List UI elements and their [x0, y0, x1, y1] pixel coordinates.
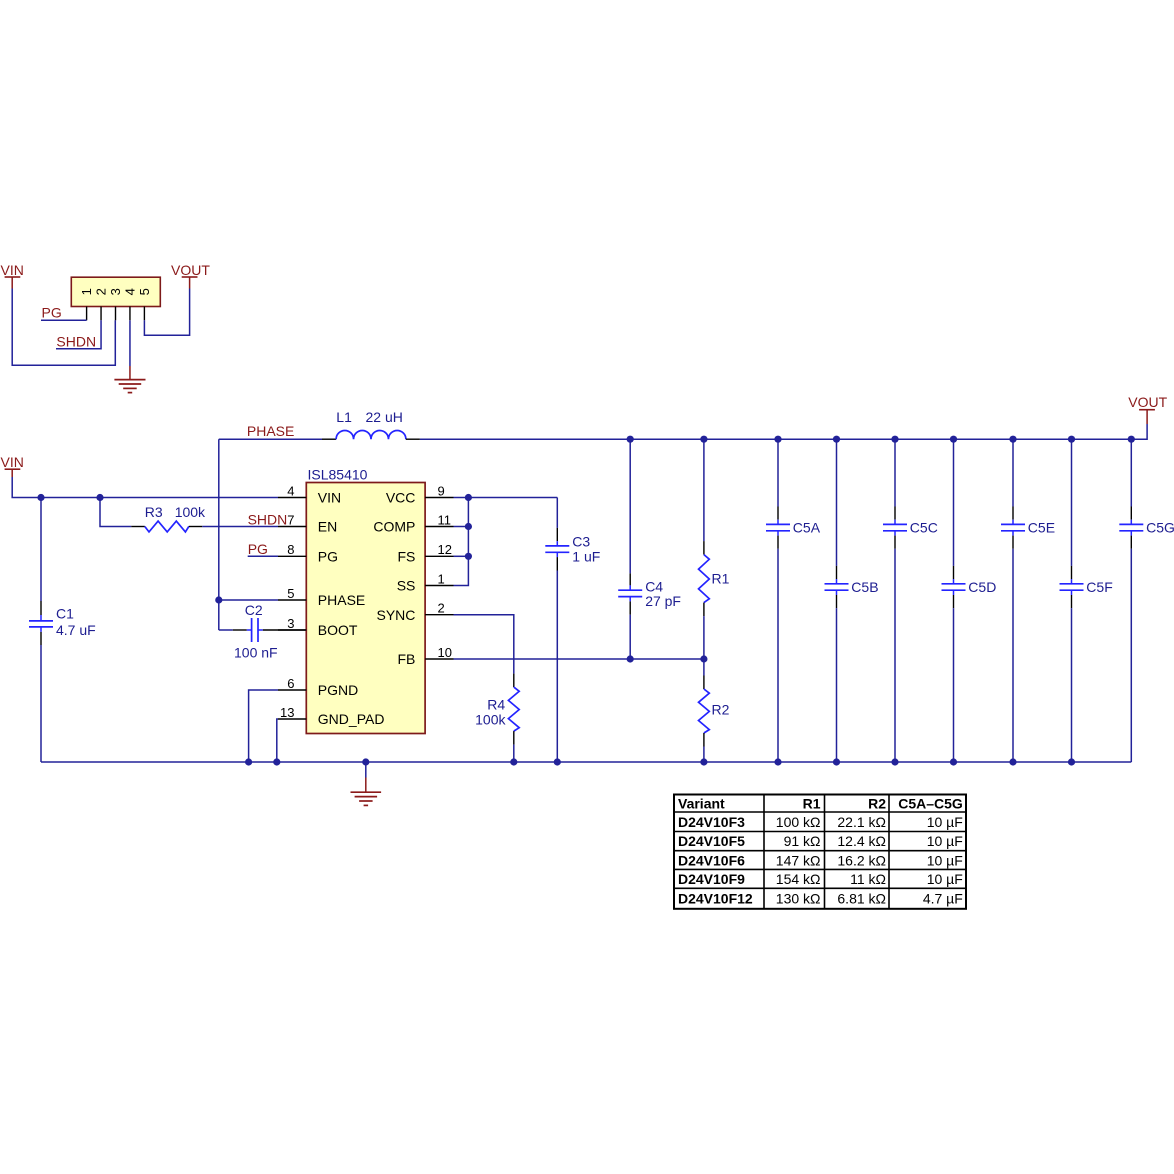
svg-text:SHDN: SHDN [56, 333, 96, 349]
node junction VCC [465, 494, 472, 501]
svg-text:L1: L1 [336, 409, 352, 425]
svg-text:VCC: VCC [386, 490, 416, 506]
table header row [678, 796, 963, 812]
node junction C5A top [774, 436, 781, 443]
IC left pin stubs [278, 498, 306, 720]
wire VIN to connector pin 3 [12, 289, 115, 366]
inductor L1 [322, 430, 420, 439]
node junction C5B bottom [833, 758, 840, 765]
svg-text:91 kΩ: 91 kΩ [784, 833, 821, 849]
svg-text:4.7 uF: 4.7 uF [56, 622, 96, 638]
node junction PGND/rail [245, 758, 252, 765]
R4 value label [475, 696, 506, 727]
svg-text:C5F: C5F [1086, 579, 1112, 595]
node junction C5F top [1068, 436, 1075, 443]
svg-text:27 pF: 27 pF [645, 593, 681, 609]
svg-text:100 kΩ: 100 kΩ [776, 814, 821, 830]
svg-text:C3: C3 [572, 534, 590, 550]
svg-text:1: 1 [438, 571, 445, 586]
svg-text:10: 10 [438, 645, 452, 660]
svg-text:100k: 100k [475, 711, 506, 727]
node junction C5B top [833, 436, 840, 443]
connector pin stubs [87, 307, 145, 321]
svg-text:FS: FS [398, 548, 416, 564]
svg-text:100 nF: 100 nF [234, 644, 278, 660]
IC right pin stubs [425, 498, 453, 660]
capacitor C5C [883, 439, 907, 762]
node PG (main) [248, 541, 278, 557]
svg-text:PG: PG [42, 304, 62, 320]
svg-text:4.7 µF: 4.7 µF [923, 891, 963, 907]
svg-text:16.2 kΩ: 16.2 kΩ [837, 852, 886, 868]
svg-text:C5D: C5D [968, 579, 996, 595]
svg-text:ISL85410: ISL85410 [308, 467, 368, 483]
wire SHDN to pin 2 [56, 320, 101, 348]
table row D24V10F5 [678, 833, 963, 849]
IC U1 ISL85410 body [306, 483, 425, 734]
wire ground rail [41, 761, 1131, 763]
node junction C5F bottom [1068, 758, 1075, 765]
node junction C5D top [950, 436, 957, 443]
svg-text:12: 12 [438, 542, 452, 557]
node junction C5G top [1128, 436, 1135, 443]
node junction C5D bottom [950, 758, 957, 765]
wire PG to pin 1 [41, 319, 87, 321]
node junction C1/VIN [37, 494, 44, 501]
svg-text:PG: PG [248, 541, 268, 557]
wire GND_PAD to ground rail [277, 719, 278, 762]
node junction C5C bottom [891, 758, 898, 765]
ground (main) [351, 792, 382, 805]
svg-text:FB: FB [398, 651, 416, 667]
C2 value label [234, 602, 278, 660]
capacitor C2 [219, 618, 306, 642]
svg-text:R2: R2 [712, 702, 730, 718]
node junction R1/VOUT rail [700, 436, 707, 443]
svg-text:C5B: C5B [851, 579, 878, 595]
svg-text:D24V10F6: D24V10F6 [678, 852, 745, 868]
svg-text:D24V10F9: D24V10F9 [678, 871, 745, 887]
svg-text:R1: R1 [712, 570, 730, 586]
capacitor C4 [618, 439, 642, 659]
resistor R2 [699, 659, 710, 762]
node junction C4/FB [627, 655, 634, 662]
svg-text:PGND: PGND [318, 682, 358, 698]
svg-text:SHDN: SHDN [248, 512, 288, 528]
wire SYNC net [454, 615, 514, 674]
svg-text:2: 2 [438, 601, 445, 616]
variant table frame [674, 795, 966, 909]
svg-text:Variant: Variant [678, 796, 725, 812]
R3 value label [145, 504, 206, 520]
resistor R3 [100, 498, 278, 532]
wire ground stub [365, 762, 367, 792]
svg-text:6.81 kΩ: 6.81 kΩ [837, 891, 886, 907]
node junction FS [465, 553, 472, 560]
svg-text:D24V10F12: D24V10F12 [678, 891, 753, 907]
capacitor C5G [1119, 439, 1143, 762]
connector J1 body [71, 277, 160, 306]
capacitor C5B [825, 439, 849, 762]
svg-text:C5A: C5A [793, 520, 821, 536]
svg-text:5: 5 [287, 586, 294, 601]
wire COMP [454, 526, 469, 528]
svg-text:11: 11 [438, 512, 452, 527]
C4 value label [645, 579, 681, 609]
svg-text:9: 9 [438, 483, 445, 498]
svg-text:GND_PAD: GND_PAD [318, 711, 385, 727]
svg-text:SS: SS [397, 578, 416, 594]
node VIN (main supply label) [1, 454, 24, 477]
wire FS [454, 555, 469, 557]
svg-text:10 µF: 10 µF [927, 852, 963, 868]
node junction COMP [465, 523, 472, 530]
table row D24V10F9 [678, 871, 963, 887]
L1 value label [336, 409, 403, 425]
svg-text:154 kΩ: 154 kΩ [776, 871, 821, 887]
svg-text:R3: R3 [145, 504, 163, 520]
svg-text:C5C: C5C [910, 520, 938, 536]
svg-text:13: 13 [280, 705, 294, 720]
wire VIN net to IC pin 4 [12, 477, 278, 498]
node VOUT (connector supply label) [171, 262, 210, 289]
svg-text:22.1 kΩ: 22.1 kΩ [837, 814, 886, 830]
svg-text:100k: 100k [175, 504, 206, 520]
wire pin 4 to ground [129, 320, 131, 379]
svg-text:PHASE: PHASE [318, 592, 365, 608]
capacitor C5D [942, 439, 966, 762]
wire VOUT rail right of L1 [420, 424, 1147, 439]
svg-text:C5A–C5G: C5A–C5G [898, 796, 963, 812]
svg-text:22 uH: 22 uH [366, 409, 403, 425]
svg-text:4: 4 [122, 288, 137, 295]
svg-text:5: 5 [137, 288, 152, 295]
svg-text:8: 8 [287, 542, 294, 557]
svg-text:3: 3 [287, 616, 294, 631]
svg-text:11 kΩ: 11 kΩ [850, 871, 886, 887]
svg-text:R4: R4 [487, 696, 505, 712]
wire PHASE pin 5 [219, 599, 278, 601]
wire FB net [454, 658, 704, 660]
svg-text:VIN: VIN [318, 490, 341, 506]
wire VCC net [454, 497, 558, 499]
svg-text:2: 2 [94, 288, 109, 295]
svg-text:D24V10F5: D24V10F5 [678, 833, 745, 849]
node junction R3/VIN [96, 494, 103, 501]
node junction ground/rail [362, 758, 369, 765]
svg-text:R2: R2 [868, 796, 886, 812]
svg-text:1: 1 [79, 288, 94, 295]
svg-text:COMP: COMP [373, 519, 415, 535]
capacitor C5F [1060, 439, 1084, 762]
svg-text:10 µF: 10 µF [927, 814, 963, 830]
node junction C3/rail [554, 758, 561, 765]
node VOUT (main supply label) [1128, 394, 1167, 424]
node VIN (connector supply label) [1, 262, 24, 289]
svg-text:1 uF: 1 uF [572, 548, 600, 564]
node junction C4/VOUT rail [627, 436, 634, 443]
C3 value label [572, 534, 600, 565]
svg-text:PHASE: PHASE [247, 423, 294, 439]
resistor R1 [699, 439, 710, 659]
node junction C5E bottom [1009, 758, 1016, 765]
svg-text:12.4 kΩ: 12.4 kΩ [837, 833, 886, 849]
svg-text:VIN: VIN [1, 454, 24, 470]
node junction C5C top [891, 436, 898, 443]
svg-text:VIN: VIN [1, 262, 24, 278]
svg-text:C5G: C5G [1146, 520, 1174, 536]
svg-text:SYNC: SYNC [376, 607, 415, 623]
table row D24V10F3 [678, 814, 963, 830]
svg-text:C2: C2 [245, 602, 263, 618]
svg-text:3: 3 [108, 288, 123, 295]
node junction C5E top [1009, 436, 1016, 443]
wire PGND to ground rail [249, 690, 278, 762]
svg-text:4: 4 [287, 483, 294, 498]
svg-text:D24V10F3: D24V10F3 [678, 814, 745, 830]
wire PHASE vertical [218, 439, 220, 630]
svg-text:C5E: C5E [1028, 520, 1055, 536]
table row D24V10F12 [678, 891, 963, 907]
capacitor C1 [29, 498, 53, 763]
svg-text:10 µF: 10 µF [927, 833, 963, 849]
capacitor C5A [766, 439, 790, 762]
wire pin 5 to VOUT [144, 289, 189, 336]
svg-text:130 kΩ: 130 kΩ [776, 891, 821, 907]
table row D24V10F6 [678, 852, 963, 868]
svg-text:C1: C1 [56, 606, 74, 622]
node junction GND_PAD/rail [273, 758, 280, 765]
svg-text:VOUT: VOUT [171, 262, 210, 278]
resistor R4 [508, 674, 519, 762]
svg-text:R1: R1 [803, 796, 821, 812]
svg-text:VOUT: VOUT [1128, 394, 1167, 410]
capacitor C3 [545, 498, 569, 763]
svg-text:BOOT: BOOT [318, 622, 358, 638]
node junction R1/R2/FB [700, 655, 707, 662]
node junction C5A bottom [774, 758, 781, 765]
ground (connector pin 4) [114, 380, 145, 393]
node junction R2/rail [700, 758, 707, 765]
svg-text:7: 7 [287, 512, 294, 527]
C1 value label [56, 606, 96, 638]
capacitor C5E [1001, 439, 1025, 762]
svg-text:PG: PG [318, 548, 338, 564]
svg-text:6: 6 [287, 676, 294, 691]
svg-text:10 µF: 10 µF [927, 871, 963, 887]
svg-text:EN: EN [318, 519, 337, 535]
node junction R4/rail [510, 758, 517, 765]
wire VCC/COMP/FS/SS vertical [454, 498, 469, 586]
node junction PHASE pin [215, 596, 222, 603]
wire PHASE rail left of L1 [219, 438, 322, 440]
svg-text:147 kΩ: 147 kΩ [776, 852, 821, 868]
